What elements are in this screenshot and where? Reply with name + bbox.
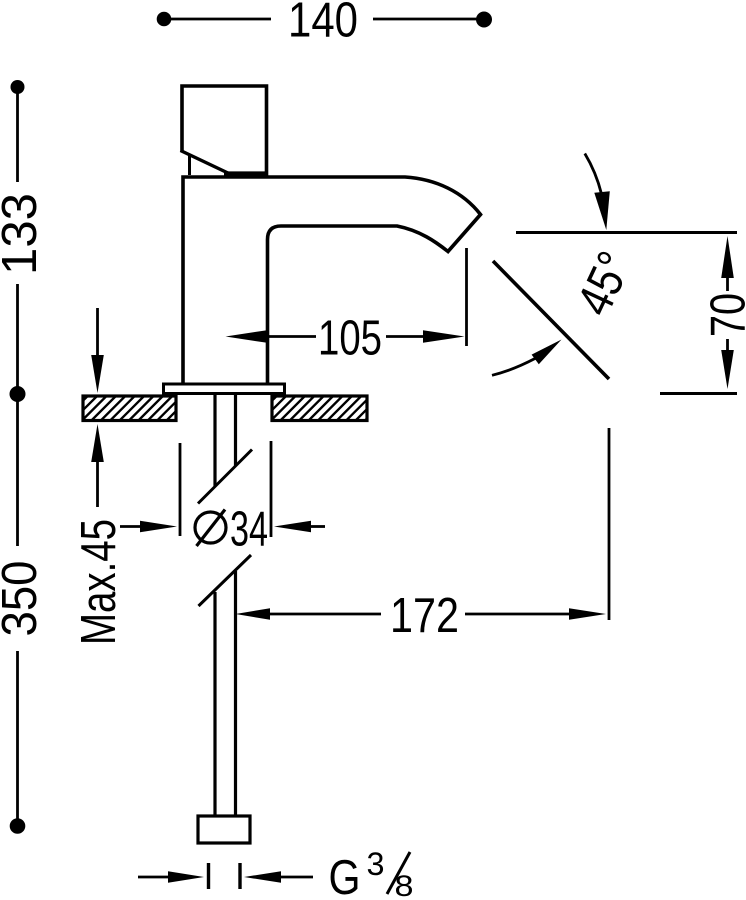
handle lever tip line <box>188 155 191 176</box>
dim G3/8 left arrow <box>168 871 204 882</box>
dim O34 left arrow <box>120 525 142 528</box>
svg-text:Max.45: Max.45 <box>72 519 126 645</box>
svg-text:G: G <box>329 851 361 900</box>
svg-text:133: 133 <box>0 193 47 275</box>
svg-text:34: 34 <box>230 503 268 557</box>
dim middle dot <box>10 386 26 402</box>
svg-text:3: 3 <box>367 846 385 882</box>
dim 140 right dot <box>476 12 492 28</box>
dim 70 upper arrow <box>721 236 734 278</box>
svg-text:172: 172 <box>390 589 459 643</box>
countertop left block <box>83 396 176 421</box>
dim 172 right arrow <box>465 613 570 616</box>
countertop right hatching <box>272 396 367 421</box>
dim 172 left arrow <box>236 608 271 620</box>
dim top dot <box>11 80 25 94</box>
45deg reference horizontal line <box>516 231 737 234</box>
dim G3/8 tick right <box>238 863 241 889</box>
dim bottom dot <box>10 818 26 834</box>
dim G3/8 line left <box>138 876 170 879</box>
svg-text:8: 8 <box>395 870 414 900</box>
handle lever diagonal <box>181 151 230 174</box>
dim G3/8 fraction slash <box>387 852 410 894</box>
dim 140 left dot <box>157 12 172 27</box>
faucet body and spout outline <box>183 177 481 384</box>
dim O34 right arrow <box>274 521 311 532</box>
pipe break mark lower <box>199 555 252 606</box>
supply pipe upper section <box>215 393 236 486</box>
countertop left hatching <box>83 396 176 421</box>
handle block <box>182 86 267 176</box>
dim 70 bottom reference line <box>660 392 737 395</box>
svg-text:105: 105 <box>318 312 382 366</box>
pipe break mark upper <box>198 450 252 504</box>
dim 105 right arrow <box>386 335 424 338</box>
dim O34 extension lines <box>180 441 271 537</box>
dim 140 line <box>164 18 484 21</box>
svg-text:70: 70 <box>702 293 746 337</box>
dim G3/8 right arrow <box>244 871 281 882</box>
dim G3/8 tick left <box>207 863 210 889</box>
dim Max.45 upper arrow <box>96 308 99 356</box>
dim 105 left arrow <box>226 330 268 343</box>
dim Max.45 lower arrow <box>91 424 104 462</box>
dim 105 extension line <box>465 248 468 346</box>
svg-text:350: 350 <box>0 561 47 637</box>
handle bottom edge <box>224 171 267 175</box>
countertop right block <box>272 396 367 421</box>
dim 172 extension line <box>608 428 611 620</box>
dim 70 lower arrow <box>726 339 729 350</box>
pipe end fitting <box>198 816 250 843</box>
base plate <box>164 384 285 394</box>
45deg lower arc arrow <box>492 359 535 376</box>
dim O34 diameter symbol <box>195 512 226 543</box>
45deg top arc arrow <box>585 154 602 195</box>
supply pipe lower section <box>215 571 236 816</box>
svg-text:140: 140 <box>288 0 358 48</box>
dim 133/350 vertical line <box>16 87 19 826</box>
45deg slope line <box>493 261 609 379</box>
